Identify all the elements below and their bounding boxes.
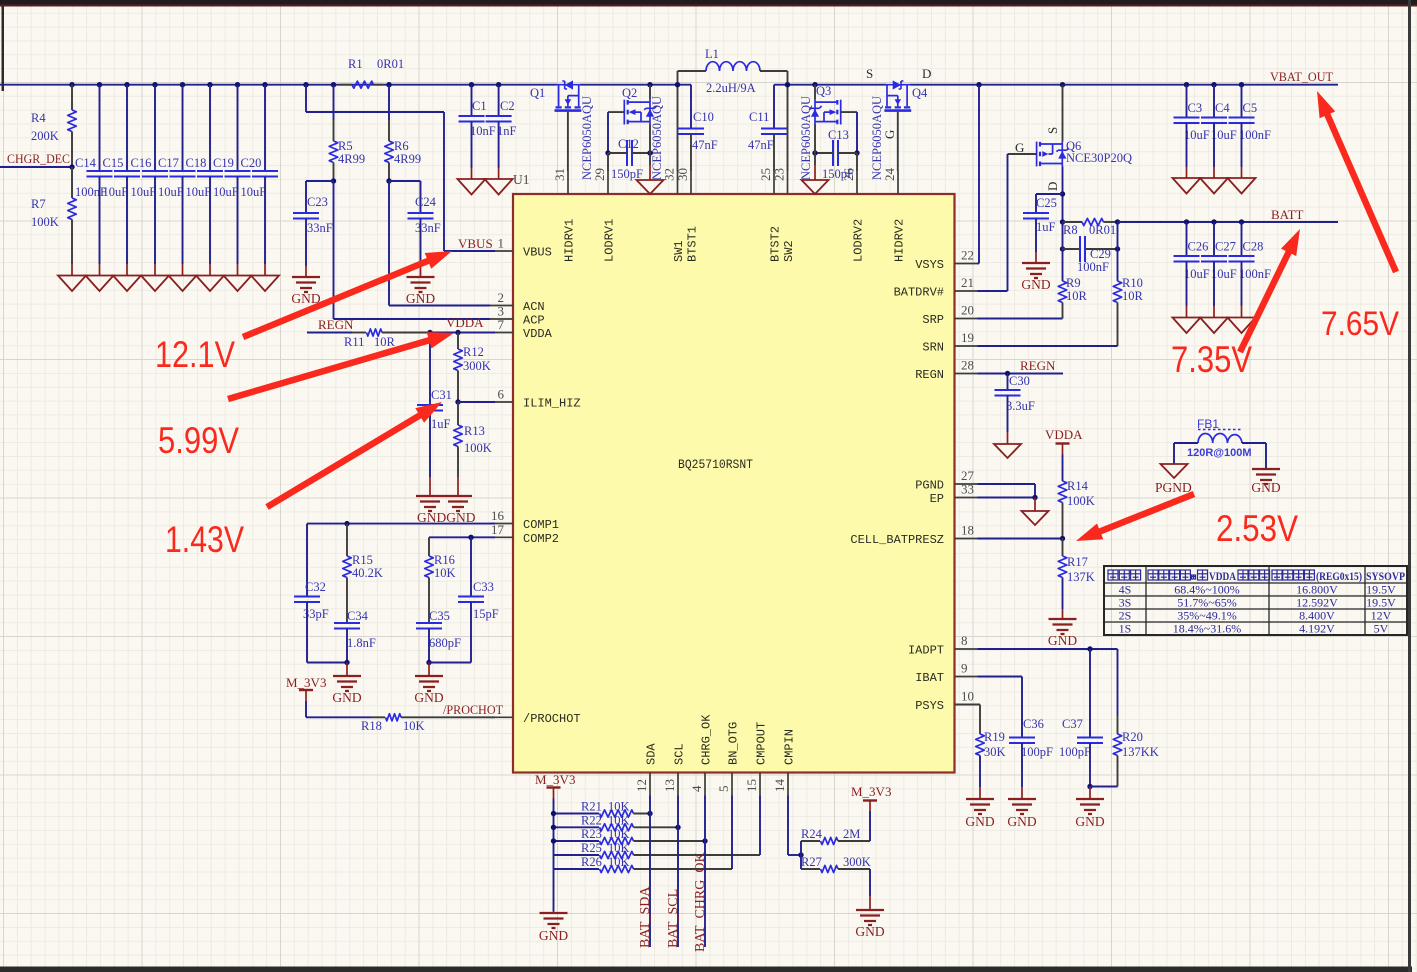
wire BATDRV vertical (1007, 154, 1009, 291)
wire C17 top lead (182, 85, 184, 171)
wire C32 top lead (306, 524, 308, 597)
svg-text:33nF: 33nF (307, 221, 333, 235)
wire CMPIN jog (787, 848, 789, 855)
wire C34 bottom lead (346, 629, 348, 663)
svg-text:24: 24 (882, 168, 897, 182)
svg-text:Q3: Q3 (816, 84, 831, 98)
junction (303, 82, 308, 87)
svg-text:CHGR_DEC: CHGR_DEC (7, 151, 70, 166)
ground under C34 (333, 676, 361, 691)
junction (1184, 219, 1189, 224)
svg-text:4R99: 4R99 (338, 152, 365, 166)
wire IBAT (978, 676, 1023, 678)
wire C30 bottom lead (1007, 396, 1009, 433)
wire R10 top lead (1117, 222, 1119, 281)
svg-text:10K: 10K (608, 800, 630, 814)
transistor Q2 NCEP6050AQU (624, 100, 656, 125)
wire C16 top lead (154, 85, 156, 171)
junction SW2 (785, 82, 790, 87)
wire C19 bottom lead (237, 177, 239, 265)
junction (1239, 219, 1244, 224)
svg-text:3S: 3S (1119, 596, 1132, 610)
svg-text:150pF: 150pF (822, 167, 854, 181)
svg-text:10: 10 (961, 689, 974, 704)
capacitor C5 (1229, 118, 1255, 124)
wire L1 left (678, 70, 707, 72)
junction C37/R20 (1087, 784, 1092, 789)
wire LODRV2 vertical (856, 112, 858, 153)
wire C13 right lead (838, 152, 857, 154)
wire C29 right lead (1085, 248, 1118, 250)
svg-text:2S: 2S (1119, 609, 1132, 623)
svg-text:R27: R27 (801, 855, 822, 869)
svg-text:100pF: 100pF (1059, 745, 1091, 759)
capacitor C10 (678, 129, 704, 135)
svg-text:137K: 137K (1067, 570, 1095, 584)
svg-text:31: 31 (552, 168, 567, 181)
junction Q2 drain (647, 82, 652, 87)
wire FB1 left down (1173, 443, 1175, 464)
junction R6/C24 (386, 178, 391, 183)
wire VBUS branch vertical (305, 85, 307, 112)
svg-text:12.1V: 12.1V (155, 334, 235, 375)
wire R17 bottom lead (1062, 578, 1064, 610)
svg-text:C16: C16 (131, 156, 152, 170)
wire Q2 source down (649, 125, 651, 154)
capacitor C12 (627, 140, 632, 166)
wire REGN (307, 332, 352, 334)
svg-text:680pF: 680pF (429, 636, 461, 650)
table header battery voltage (1272, 570, 1282, 580)
svg-text:GND: GND (1021, 277, 1050, 292)
wire Q2 source to ground (649, 153, 651, 165)
junction CHGR_DEC node (69, 164, 74, 169)
wire ACN vertical (388, 181, 390, 306)
svg-text:REGN: REGN (318, 317, 354, 332)
wire VBUS branch horizontal (306, 111, 444, 113)
wire L1 right (760, 70, 788, 72)
wire C18 bottom lead (209, 177, 211, 265)
wire to ACP pin 3 (334, 318, 491, 320)
ground under C26 (1173, 318, 1201, 334)
svg-text:S: S (1045, 127, 1060, 134)
power ground PGND (1161, 464, 1188, 478)
resistor R23 (600, 837, 634, 844)
wire Q3 source down (814, 125, 816, 154)
svg-text:GND: GND (1048, 633, 1077, 648)
junction SCL (675, 825, 680, 830)
svg-text:C26: C26 (1188, 240, 1209, 254)
resistor R20 (1113, 734, 1122, 756)
svg-text:100K: 100K (1067, 494, 1095, 508)
svg-text:R11: R11 (344, 335, 364, 349)
svg-text:C15: C15 (103, 156, 124, 170)
svg-text:300K: 300K (843, 855, 871, 869)
capacitor C3 (1174, 118, 1200, 124)
svg-text:R14: R14 (1067, 479, 1089, 493)
svg-text:13: 13 (662, 779, 677, 792)
ground under R17 (1049, 619, 1077, 634)
svg-text:NCEP6050AQU: NCEP6050AQU (580, 96, 594, 180)
wire C15 top lead (126, 85, 128, 171)
wire R20 to C37 (1090, 786, 1118, 788)
resistor R13 (454, 425, 463, 447)
svg-text:/PROCHOT: /PROCHOT (443, 702, 503, 717)
wire C17 bottom lead (182, 177, 184, 265)
svg-text:4: 4 (689, 785, 704, 792)
svg-text:C12: C12 (618, 137, 639, 151)
wire C36 top lead (1021, 677, 1023, 738)
svg-text:1: 1 (498, 236, 505, 251)
junction C34 ground (344, 660, 349, 665)
svg-text:10uF: 10uF (213, 185, 239, 199)
power M_3V3 CMPIN (863, 799, 877, 801)
wire REGN pin 28 (978, 373, 1064, 375)
wire ILIM_HIZ to pin 6 (458, 401, 495, 403)
svg-text:SW2: SW2 (782, 240, 796, 262)
svg-text:20: 20 (961, 303, 974, 318)
svg-text:R22: R22 (581, 813, 602, 827)
wire SCL vertical (677, 796, 679, 948)
svg-text:10uF: 10uF (1184, 128, 1210, 142)
wire VBUS to pin 1 (444, 250, 495, 252)
wire C25 top lead (1035, 194, 1037, 213)
svg-text:14: 14 (772, 779, 787, 793)
wire C32 bottom lead (306, 602, 308, 663)
svg-text:Q1: Q1 (530, 86, 545, 100)
svg-text:GND: GND (1075, 814, 1104, 829)
IC right pin stubs (955, 263, 978, 265)
junction Q6 drain / C25 (1060, 191, 1065, 196)
wire BTST1 top lead (690, 85, 692, 129)
annotation arrow to C31 (267, 412, 425, 507)
resistor R4 (68, 110, 77, 132)
svg-text:16: 16 (491, 508, 505, 523)
svg-text:3.3uF: 3.3uF (1006, 399, 1035, 413)
wire Q2 drain lead (649, 85, 651, 100)
junction (124, 82, 129, 87)
wire Q6 drain down (1062, 166, 1064, 222)
wire SRN (978, 345, 1118, 347)
wire R25 left (554, 854, 600, 856)
ground under C4 (1200, 178, 1228, 194)
capacitor C35 (416, 623, 442, 629)
svg-text:REGN: REGN (915, 368, 944, 382)
svg-text:R15: R15 (352, 553, 373, 567)
svg-text:R25: R25 (581, 841, 602, 855)
wire Q3 gate (841, 111, 857, 113)
wire R8 right lead (1104, 221, 1118, 223)
junction SW1 (675, 82, 680, 87)
svg-text:SCL: SCL (673, 743, 687, 765)
svg-text:10K: 10K (608, 827, 630, 841)
capacitor C13 (833, 140, 838, 166)
wire R27 to ground (869, 869, 871, 896)
svg-text:R6: R6 (394, 139, 409, 153)
svg-text:/PROCHOT: /PROCHOT (523, 712, 581, 726)
resistor R18 (386, 714, 402, 721)
svg-text:C10: C10 (693, 110, 714, 124)
wire C2 bottom lead (498, 122, 500, 169)
svg-text:10R: 10R (1066, 289, 1088, 303)
svg-text:C34: C34 (347, 609, 369, 623)
wire R22 left (554, 826, 600, 828)
wire R5 bottom lead (333, 163, 335, 182)
svg-text:5.99V: 5.99V (158, 420, 239, 461)
junction Q3 drain (812, 82, 817, 87)
wire CHGR_DEC (0, 166, 72, 168)
ground under C17 (169, 276, 197, 292)
wire C37 top lead (1089, 649, 1091, 738)
svg-text:C28: C28 (1243, 240, 1264, 254)
svg-text:BAT_SCL: BAT_SCL (666, 889, 681, 948)
wire Q2 gate (608, 111, 624, 113)
svg-text:8: 8 (961, 633, 968, 648)
wire C3 bottom lead (1186, 123, 1188, 167)
wire R24 left lead (801, 840, 820, 842)
svg-text:29: 29 (592, 168, 607, 181)
wire R24 to M_3V3 (869, 811, 871, 841)
wire C31 bottom lead (429, 411, 431, 478)
svg-text:NCE30P20Q: NCE30P20Q (1066, 151, 1132, 165)
svg-text:Q4: Q4 (912, 86, 928, 100)
wire pin 27 (978, 483, 1036, 485)
wire R21 left (554, 813, 600, 815)
ground pullup rail (540, 913, 568, 928)
power ground under Q3 (802, 180, 829, 194)
svg-text:150pF: 150pF (611, 167, 643, 181)
resistor R16 (425, 556, 434, 578)
wire M_3V3 pullup rail (553, 799, 555, 912)
wire R27 left lead (801, 868, 820, 870)
capacitor C1 (459, 116, 485, 122)
ground under C20 (251, 276, 279, 292)
svg-text:CMPIN: CMPIN (783, 729, 797, 765)
junction (386, 82, 391, 87)
svg-text:EP: EP (930, 492, 944, 506)
svg-text:5: 5 (716, 786, 731, 793)
wire R7 top lead (71, 167, 73, 198)
wire SW1 pin line (677, 85, 679, 171)
svg-text:GND: GND (332, 690, 361, 705)
wire R15 top lead (346, 524, 348, 556)
svg-text:0R01: 0R01 (1089, 223, 1116, 237)
svg-text:SRP: SRP (922, 313, 944, 327)
capacitor C30 (995, 390, 1021, 396)
ground under C27 (1200, 318, 1228, 334)
svg-text:10uF: 10uF (241, 185, 267, 199)
wire C33 to junction (429, 662, 471, 664)
wire C28 bottom lead (1241, 262, 1243, 307)
wire BATT rail (1118, 221, 1339, 223)
ground under C16 (141, 276, 169, 292)
wire C5 top lead (1241, 85, 1243, 118)
wire FB1 left (1174, 442, 1198, 444)
wire M_3V3 down (305, 701, 307, 717)
svg-text:VDDA: VDDA (1045, 427, 1083, 442)
svg-text:VBUS: VBUS (458, 236, 493, 251)
wire C13 left lead (815, 152, 833, 154)
svg-text:R24: R24 (801, 827, 823, 841)
wire C25 bottom lead (1035, 219, 1037, 253)
junction C31 top (427, 330, 432, 335)
svg-text:C23: C23 (307, 195, 328, 209)
wire R20 bottom lead (1117, 756, 1119, 787)
svg-text:R20: R20 (1122, 730, 1143, 744)
wire R6 top lead (388, 120, 390, 141)
wire C14 top lead (99, 85, 101, 171)
junction (69, 82, 74, 87)
svg-text:1uF: 1uF (431, 417, 451, 431)
wire LODRV1 vertical (607, 112, 609, 153)
svg-text:D: D (922, 66, 931, 81)
wire to ACN pin 2 (389, 305, 490, 307)
wire C36 bottom lead (1021, 743, 1023, 787)
svg-text:CHRG_OK: CHRG_OK (700, 714, 714, 765)
svg-text:U1: U1 (513, 172, 530, 187)
wire C23 bottom lead (305, 219, 307, 267)
resistor R14 (1058, 481, 1067, 503)
annotation arrow to BATT (1240, 247, 1291, 352)
power M_3V3 (299, 689, 313, 691)
wire R27 right lead (838, 868, 870, 870)
wire pin 26 lead (856, 153, 858, 171)
ground under C37 (1076, 799, 1104, 814)
svg-text:19.5V: 19.5V (1366, 596, 1396, 610)
resistor R25 (600, 851, 634, 858)
svg-text:SYSOVP: SYSOVP (1366, 571, 1405, 583)
wire C37 bottom lead (1089, 743, 1091, 787)
svg-text:REGN: REGN (1020, 358, 1056, 373)
svg-text:C18: C18 (186, 156, 207, 170)
junction R8 right (1115, 219, 1120, 224)
ground under R7 (58, 276, 86, 292)
ground under C25 (1022, 263, 1050, 278)
svg-text:51.7%~65%: 51.7%~65% (1177, 596, 1236, 610)
svg-text:300K: 300K (463, 359, 491, 373)
svg-text:COMP2: COMP2 (523, 532, 559, 546)
wire R8 left lead (1063, 221, 1083, 223)
svg-text:28: 28 (961, 358, 974, 373)
svg-text:ACP: ACP (523, 314, 545, 328)
junction C37 top (1087, 646, 1092, 651)
svg-text:C37: C37 (1062, 717, 1083, 731)
svg-text:C24: C24 (415, 195, 437, 209)
svg-text:100nF: 100nF (1239, 267, 1271, 281)
svg-text:R10: R10 (1122, 276, 1143, 290)
svg-text:68.4%~100%: 68.4%~100% (1174, 583, 1239, 597)
wire C31 top lead (429, 333, 431, 406)
svg-text:C5: C5 (1243, 101, 1258, 115)
svg-text:40.2K: 40.2K (352, 566, 383, 580)
wire R4 to CHGR_DEC (71, 132, 73, 168)
wire to C23 (306, 180, 334, 182)
svg-text:C3: C3 (1188, 101, 1203, 115)
wire SW2 pin line (787, 85, 789, 171)
capacitor C11 (761, 129, 787, 135)
svg-text:BTST1: BTST1 (686, 226, 700, 262)
svg-text:10K: 10K (608, 841, 630, 855)
svg-text:10nF: 10nF (470, 124, 496, 138)
svg-text:R9: R9 (1066, 276, 1081, 290)
resistor R19 (976, 734, 985, 756)
wire R9 to SRP (1062, 303, 1064, 319)
wire R20 top lead (1117, 649, 1119, 716)
ground under C15 (113, 276, 141, 292)
svg-text:C25: C25 (1036, 196, 1057, 210)
ground under C2 (485, 179, 513, 195)
ground under R27 (856, 910, 884, 925)
capacitor C18 (197, 171, 223, 177)
svg-text:R16: R16 (434, 553, 455, 567)
wire R6 top (388, 85, 390, 120)
svg-text:0R01: 0R01 (377, 57, 404, 71)
svg-text:NCEP6050AQU: NCEP6050AQU (650, 96, 664, 180)
ground under C35 (415, 676, 443, 691)
svg-text:10K: 10K (434, 566, 456, 580)
wire R13 top lead (457, 402, 459, 425)
svg-text:5V: 5V (1374, 622, 1389, 636)
wire CMPIN vertical (787, 796, 789, 849)
svg-text:C30: C30 (1009, 374, 1030, 388)
svg-text:10R: 10R (374, 335, 396, 349)
svg-text:BQ25710RSNT: BQ25710RSNT (678, 457, 753, 472)
wire R19 bottom lead (979, 756, 981, 788)
svg-text:100K: 100K (464, 441, 492, 455)
svg-text:C11: C11 (749, 110, 769, 124)
capacitor C24 (408, 213, 434, 219)
ground under C3 (1173, 178, 1201, 194)
wire C4 bottom lead (1213, 123, 1215, 167)
wire R25 right (634, 854, 761, 856)
wire R5 top (333, 85, 335, 120)
svg-text:IBAT: IBAT (915, 671, 944, 685)
junction (1211, 82, 1216, 87)
power ground EP (1022, 511, 1049, 525)
ground under C36 (1008, 799, 1036, 814)
wire C20 top lead (264, 85, 266, 171)
svg-text:C13: C13 (828, 128, 849, 142)
annotation arrow to CELL_BATPRESZ (1095, 494, 1194, 534)
resistor R17 (1058, 556, 1067, 578)
junction (1239, 82, 1244, 87)
svg-text:VBUS: VBUS (523, 246, 552, 260)
svg-text:16.800V: 16.800V (1296, 583, 1338, 597)
junction (1211, 219, 1216, 224)
svg-text:CELL_BATPRESZ: CELL_BATPRESZ (850, 533, 944, 547)
wire R12 top lead (457, 333, 459, 350)
svg-text:C19: C19 (213, 156, 234, 170)
svg-text:VSYS: VSYS (915, 258, 944, 272)
svg-text:35%~49.1%: 35%~49.1% (1177, 609, 1236, 623)
svg-text:PSYS: PSYS (915, 699, 944, 713)
junction CELL_BATPRESZ (1060, 536, 1065, 541)
wire C10 to pin 30 (690, 134, 692, 171)
op-amp U1 IC body BQ25710RSNT (513, 194, 955, 773)
svg-text:R1: R1 (348, 57, 363, 71)
capacitor C19 (225, 171, 251, 177)
capacitor C14 (87, 171, 113, 177)
wire CMPIN to R24 (788, 854, 801, 856)
ground GNDGND right (444, 496, 472, 511)
IC bottom pin stubs (649, 773, 651, 796)
svg-text:C35: C35 (429, 609, 450, 623)
svg-text:Q2: Q2 (622, 86, 637, 100)
wire C32 to junction (307, 662, 347, 664)
capacitor C25 (1023, 213, 1049, 219)
svg-text:M_3V3: M_3V3 (851, 784, 891, 799)
wire C26 bottom lead (1186, 262, 1188, 307)
